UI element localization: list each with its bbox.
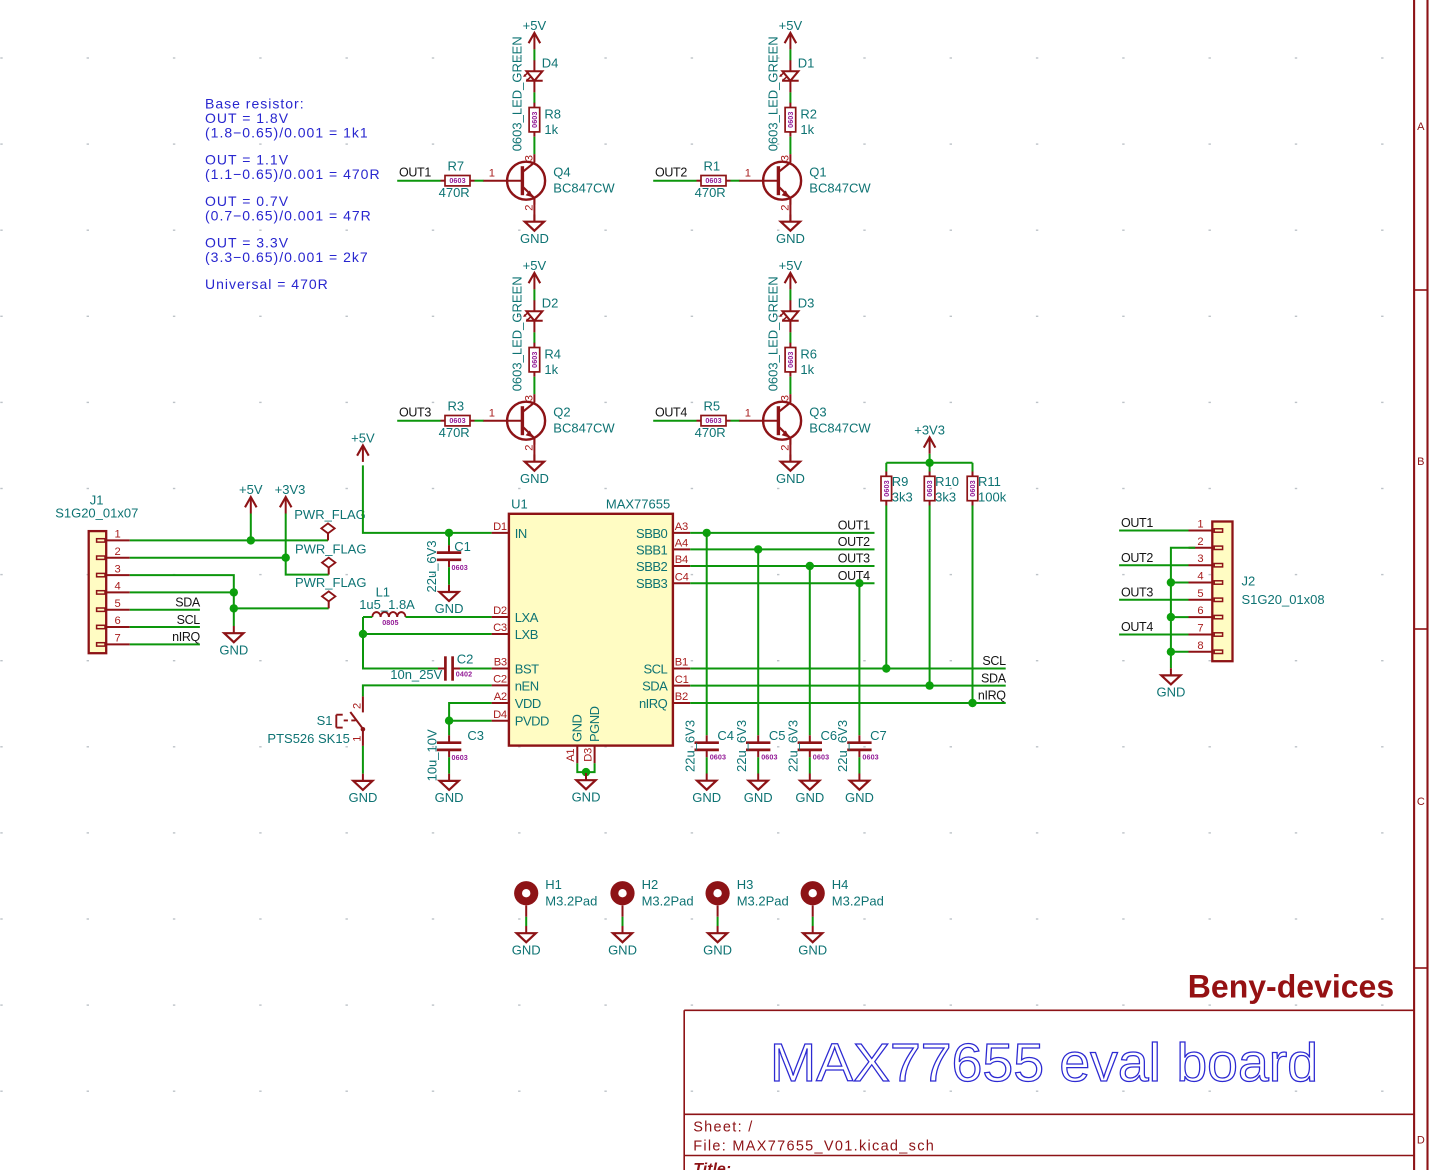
U1 pin B3 BST [492, 657, 540, 677]
svg-text:H4: H4 [832, 877, 849, 892]
junction R11 [968, 699, 976, 707]
U1 pin A2 VDD [492, 691, 541, 711]
wire +5V to LED D1 [789, 49, 791, 60]
power +5V (Q3 cell) [779, 258, 803, 289]
capacitor C2 10n_25V [438, 656, 460, 680]
svg-text:+5V: +5V [779, 18, 803, 33]
wire J1 pin4 [130, 591, 234, 593]
wire U1 GND pins to ground [577, 763, 594, 773]
power flag PWR_FLAG (on +3V3 net) [295, 541, 367, 574]
label OUT4 (U1) [838, 569, 870, 583]
wire R2 to collector [789, 137, 791, 155]
svg-text:R8: R8 [544, 106, 561, 121]
wire J1 pin1 to +5V / PWR_FLAG [130, 539, 328, 541]
wire R11 down [972, 506, 974, 704]
power +5V (Q1 cell) [779, 18, 803, 49]
junction U1 GND [582, 768, 590, 776]
wire R4 to collector [533, 377, 535, 395]
power flag PWR_FLAG (on +5V net) [294, 507, 366, 540]
svg-text:22u_6V3: 22u_6V3 [734, 720, 749, 772]
resistor R11 100k [967, 472, 1006, 506]
J2 pin 7 [1189, 623, 1213, 635]
svg-text:3: 3 [779, 395, 791, 401]
transistor Q3 BC847CW [739, 394, 872, 445]
svg-text:nIRQ: nIRQ [639, 696, 668, 711]
pin 3 (collector) [779, 155, 791, 161]
wire PVDD to C3 [448, 721, 450, 736]
svg-text:C3: C3 [493, 622, 507, 634]
svg-text:OUT1: OUT1 [1121, 516, 1153, 530]
mounting hole H2 M3.2Pad [610, 877, 693, 908]
resistor R7 470R [439, 158, 475, 200]
svg-text:0603_LED_GREEN: 0603_LED_GREEN [766, 276, 781, 391]
resistor R3 470R [439, 398, 475, 440]
J2 pin 8 [1189, 640, 1213, 652]
svg-text:SBB2: SBB2 [636, 559, 668, 574]
LED D4 0603_LED_GREEN [510, 36, 559, 151]
svg-text:470R: 470R [695, 185, 726, 200]
zone letter D [1417, 1135, 1425, 1147]
LED D1 0603_LED_GREEN [766, 36, 815, 151]
wire GND net to PWR_FLAG [234, 592, 329, 608]
svg-text:B3: B3 [494, 657, 507, 669]
label OUT1 (J2) [1121, 516, 1153, 530]
svg-text:C7: C7 [870, 728, 887, 743]
svg-text:M3.2Pad: M3.2Pad [642, 893, 694, 908]
title label [693, 1161, 731, 1170]
svg-text:1: 1 [1197, 519, 1203, 531]
pin 2 (emitter) [779, 445, 791, 451]
svg-text:SCL: SCL [982, 654, 1006, 668]
pin 2 (emitter) [523, 205, 535, 211]
wire PVDD [449, 720, 492, 722]
svg-text:1k: 1k [544, 362, 558, 377]
wire rail to R11 [972, 463, 974, 472]
svg-text:BC847CW: BC847CW [809, 180, 871, 195]
wire C6 to ground [809, 757, 811, 773]
svg-text:D3: D3 [798, 296, 815, 311]
file info [693, 1138, 935, 1154]
svg-text:Q2: Q2 [553, 405, 570, 420]
svg-text:B: B [1417, 456, 1424, 468]
label OUT3 [399, 406, 431, 420]
mounting hole H4 M3.2Pad [801, 877, 884, 908]
wire SBB3 (OUT4) [690, 582, 874, 584]
wire rail to R10 [929, 463, 931, 472]
inductor L1 1u5_1.8A [359, 585, 415, 627]
wire rail to R9 [885, 463, 887, 472]
svg-text:C3: C3 [467, 728, 484, 743]
svg-text:File: MAX77655_V01.kicad_sch: File: MAX77655_V01.kicad_sch [693, 1138, 935, 1154]
transistor Q4 BC847CW [483, 154, 616, 205]
svg-text:nEN: nEN [515, 678, 539, 693]
wire J1 pin7 (nIRQ) [130, 643, 200, 645]
svg-text:470R: 470R [439, 185, 470, 200]
J1 pin 6 [106, 615, 130, 627]
svg-text:Beny-devices: Beny-devices [1188, 969, 1394, 1005]
wire emitter to GND [789, 199, 791, 222]
wire R9 down [885, 506, 887, 669]
wire J2 ground bus [1171, 548, 1195, 668]
svg-text:MAX77655 eval board: MAX77655 eval board [770, 1033, 1318, 1093]
J2 pin 4 [1189, 571, 1213, 583]
wire LED to resistor R8 [533, 92, 535, 103]
ground (H2) [608, 926, 637, 957]
svg-text:OUT4: OUT4 [1121, 620, 1153, 634]
wire C3 to ground [448, 757, 450, 773]
junction R10 [925, 681, 933, 689]
svg-text:Sheet: /: Sheet: / [693, 1120, 753, 1136]
U1 pin A3 SBB0 [636, 521, 690, 541]
svg-text:SBB0: SBB0 [636, 526, 668, 541]
J1 pin 5 [106, 598, 130, 610]
wire pullup rail [886, 462, 972, 464]
U1 pin D3 PGND [582, 706, 602, 763]
LED D3 0603_LED_GREEN [766, 276, 815, 391]
svg-text:B4: B4 [675, 554, 688, 566]
wire emitter to GND [533, 199, 535, 222]
ground (J1) [219, 626, 248, 657]
wire OUT1 to R7 [397, 180, 440, 182]
wire J2 pin 6 stub [1171, 616, 1189, 618]
capacitor C5 22u_6V3 [734, 720, 786, 772]
svg-text:SBB1: SBB1 [636, 542, 668, 557]
label OUT1 (U1) [838, 519, 870, 533]
junction +3V3 rail [925, 459, 933, 467]
label OUT4 (J2) [1121, 620, 1153, 634]
note text: base resistor calculations [205, 96, 381, 293]
svg-text:R4: R4 [544, 346, 561, 361]
U1 pin C4 SBB3 [636, 571, 690, 591]
svg-text:+5V: +5V [779, 258, 803, 273]
junction LXB [359, 630, 367, 638]
svg-text:+3V3: +3V3 [275, 482, 306, 497]
svg-text:0603_LED_GREEN: 0603_LED_GREEN [766, 36, 781, 151]
wire J2 pin 5 (OUT3) [1119, 599, 1188, 601]
svg-text:MAX77655: MAX77655 [606, 497, 670, 512]
wire LED to resistor R6 [789, 332, 791, 343]
zone letter A [1417, 121, 1425, 133]
U1 pin C2 nEN [492, 674, 539, 694]
wire SBB2 to C6 [809, 566, 811, 735]
wire R3 to base [475, 420, 484, 422]
svg-text:D4: D4 [493, 709, 507, 721]
svg-text:OUT3: OUT3 [1121, 586, 1153, 600]
J1 pin 4 [106, 581, 130, 593]
svg-text:D2: D2 [493, 605, 507, 617]
J2 pin 3 [1189, 553, 1213, 565]
title MAX77655 eval board [770, 1033, 1318, 1093]
svg-text:6: 6 [1197, 605, 1203, 617]
junction pin3/pin4 [230, 588, 238, 596]
svg-text:1k: 1k [544, 122, 558, 137]
svg-text:R2: R2 [800, 106, 817, 121]
logo Beny-devices [1188, 969, 1394, 1005]
wire C5 to ground [757, 757, 759, 773]
svg-text:22u_6V3: 22u_6V3 [424, 540, 439, 592]
power flag PWR_FLAG (on GND net) [295, 575, 367, 608]
svg-text:470R: 470R [439, 425, 470, 440]
svg-text:3: 3 [523, 155, 535, 161]
U1 pin C3 LXB [492, 622, 538, 642]
U1 pin A1 GND [565, 715, 585, 764]
svg-text:0603: 0603 [452, 753, 468, 762]
svg-text:5: 5 [1197, 588, 1203, 600]
U1 pin D4 PVDD [492, 709, 549, 729]
svg-text:BC847CW: BC847CW [809, 420, 871, 435]
wire J1 pin5 (SDA) [130, 609, 200, 611]
svg-text:2: 2 [115, 546, 121, 558]
svg-text:R6: R6 [800, 346, 817, 361]
wire C2 to BST [460, 668, 492, 670]
label SDA (right) [981, 671, 1007, 685]
svg-text:B1: B1 [675, 657, 688, 669]
svg-text:B2: B2 [675, 691, 688, 703]
svg-text:Universal = 470R: Universal = 470R [205, 276, 329, 292]
svg-text:C1: C1 [454, 539, 471, 554]
J1 pin 7 [106, 633, 130, 645]
connector J2 S1G20_01x08 [1212, 522, 1324, 662]
wire SBB1 (OUT2) [690, 548, 874, 550]
pin 3 (collector) [523, 155, 535, 161]
label OUT3 (J2) [1121, 586, 1153, 600]
svg-text:M3.2Pad: M3.2Pad [737, 893, 789, 908]
svg-text:H3: H3 [737, 877, 754, 892]
svg-text:D1: D1 [798, 56, 815, 71]
label OUT3 (U1) [838, 552, 870, 566]
svg-text:C1: C1 [675, 674, 689, 686]
sheet info [693, 1120, 753, 1136]
wire R5 to base [731, 420, 740, 422]
wire to ground (J1) [233, 608, 235, 626]
wire LXB to BST via C2 [363, 634, 438, 669]
svg-text:S1G20_01x07: S1G20_01x07 [55, 505, 138, 520]
wire OUT4 to R5 [653, 420, 696, 422]
svg-text:0603: 0603 [452, 563, 468, 572]
svg-text:22u_6V3: 22u_6V3 [682, 720, 697, 772]
junction +3V3/pin2 [282, 554, 290, 562]
ground (Q4 emitter) [520, 215, 549, 246]
pin 1 (base) [745, 167, 751, 179]
transistor Q2 BC847CW [483, 394, 616, 445]
svg-text:C4: C4 [675, 571, 689, 583]
svg-text:SCL: SCL [644, 661, 668, 676]
svg-text:(1.1−0.65)/0.001 = 470R: (1.1−0.65)/0.001 = 470R [205, 166, 381, 182]
svg-text:PVDD: PVDD [515, 714, 549, 729]
svg-text:C5: C5 [769, 728, 786, 743]
junction J2 pin 4 [1167, 578, 1175, 586]
ground (C4) [692, 774, 721, 805]
wire R8 to collector [533, 137, 535, 155]
wire J1 pin2 net [130, 558, 329, 575]
wire J2 pin 8 stub [1171, 651, 1189, 653]
junction SBB0/C4 [703, 529, 711, 537]
wire SBB1 to C5 [757, 549, 759, 735]
svg-text:Q1: Q1 [809, 165, 826, 180]
switch S1 PTS526 SK15 [267, 696, 365, 746]
capacitor C1 22u_6V3 [424, 539, 471, 593]
J2 pin 5 [1189, 588, 1213, 600]
label OUT2 [655, 166, 687, 180]
wire +5V to LED D4 [533, 49, 535, 60]
svg-text:5: 5 [115, 598, 121, 610]
svg-text:+3V3: +3V3 [914, 422, 945, 437]
junction GND branch [230, 604, 238, 612]
svg-text:A1: A1 [565, 749, 577, 762]
U1 pin D1 IN [492, 521, 527, 541]
svg-text:S1G20_01x08: S1G20_01x08 [1242, 592, 1325, 607]
label SDA [175, 595, 201, 609]
capacitor C4 22u_6V3 [682, 720, 734, 772]
svg-text:A3: A3 [675, 521, 688, 533]
svg-text:OUT2: OUT2 [838, 535, 870, 549]
svg-text:SDA: SDA [175, 595, 201, 609]
junction SBB1/C5 [754, 545, 762, 553]
svg-text:10n_25V: 10n_25V [390, 667, 442, 682]
J2 pin 6 [1189, 605, 1213, 617]
svg-text:BST: BST [515, 661, 539, 676]
svg-text:M3.2Pad: M3.2Pad [832, 893, 884, 908]
wire R1 to base [731, 180, 740, 182]
wire R6 to collector [789, 377, 791, 395]
mounting hole H3 M3.2Pad [706, 877, 789, 908]
svg-text:+5V: +5V [523, 258, 547, 273]
capacitor C3 10u_10V [425, 728, 485, 781]
junction PVDD/C3 [445, 717, 453, 725]
svg-text:+5V: +5V [239, 482, 263, 497]
junction SBB2/C6 [806, 562, 814, 570]
svg-text:1: 1 [489, 167, 495, 179]
wire +5V to LED D3 [789, 289, 791, 300]
ground (Q3 emitter) [776, 455, 805, 486]
wire S1 to ground [362, 746, 364, 774]
wire J1 pin3 to pin4 (GND net) [130, 575, 234, 592]
svg-text:1: 1 [745, 167, 751, 179]
svg-text:1: 1 [489, 407, 495, 419]
capacitor C6 22u_6V3 [785, 720, 837, 772]
power +5V (J1) [239, 482, 263, 540]
ground (C1) [435, 585, 464, 616]
wire SBB3 to C7 [858, 583, 860, 735]
wire OUT3 to R3 [397, 420, 440, 422]
J1 pin 2 [106, 546, 130, 558]
wire H1 to ground [525, 905, 527, 926]
connector J1 S1G20_01x07 [55, 493, 138, 654]
power +3V3 (pullups) [914, 422, 945, 462]
svg-text:BC847CW: BC847CW [553, 420, 615, 435]
capacitor C7 22u_6V3 [835, 720, 887, 772]
junction J2 pin 8 [1167, 648, 1175, 656]
ground (C3) [435, 774, 464, 805]
wire J2 pin 4 stub [1171, 582, 1189, 584]
ground (H4) [798, 926, 827, 957]
ground (C5) [744, 774, 773, 805]
svg-text:H1: H1 [545, 877, 562, 892]
wire LXB row [363, 617, 492, 634]
svg-text:+5V: +5V [523, 18, 547, 33]
svg-text:M3.2Pad: M3.2Pad [545, 893, 597, 908]
pin 2 (emitter) [523, 445, 535, 451]
wire SBB0 to C4 [706, 533, 708, 735]
resistor R4 1k [529, 343, 561, 378]
wire H4 to ground [812, 905, 814, 926]
svg-text:4: 4 [1197, 571, 1203, 583]
wire C1 to ground [448, 567, 450, 585]
wire L1 to LXA [363, 616, 492, 618]
resistor R5 470R [695, 398, 731, 440]
svg-text:D4: D4 [542, 56, 559, 71]
U1 pin B2 nIRQ [639, 691, 690, 711]
svg-text:470R: 470R [695, 425, 726, 440]
zone letter C [1417, 796, 1425, 808]
svg-text:(0.7−0.65)/0.001 = 47R: (0.7−0.65)/0.001 = 47R [205, 207, 372, 223]
svg-text:J2: J2 [1242, 573, 1256, 588]
svg-text:OUT2: OUT2 [655, 166, 687, 180]
label OUT1 [399, 166, 431, 180]
pin 1 (base) [489, 407, 495, 419]
svg-text:C: C [1417, 796, 1425, 808]
svg-text:3k3: 3k3 [892, 490, 913, 505]
svg-text:7: 7 [1197, 623, 1203, 635]
svg-text:OUT4: OUT4 [655, 406, 687, 420]
svg-text:(3.3−0.65)/0.001 = 2k7: (3.3−0.65)/0.001 = 2k7 [205, 249, 369, 265]
svg-text:SDA: SDA [981, 671, 1007, 685]
resistor R9 3k3 [881, 472, 913, 506]
svg-text:3: 3 [115, 563, 121, 575]
svg-text:4: 4 [115, 581, 121, 593]
resistor R6 1k [785, 343, 817, 378]
resistor R1 470R [695, 158, 731, 200]
U1 pin A4 SBB1 [636, 538, 690, 558]
svg-text:0603_LED_GREEN: 0603_LED_GREEN [510, 276, 525, 391]
svg-text:2: 2 [351, 703, 363, 709]
svg-text:0402: 0402 [456, 670, 472, 679]
U1 pin D2 LXA [492, 605, 539, 625]
pin 3 (collector) [779, 395, 791, 401]
svg-text:3: 3 [779, 155, 791, 161]
svg-text:1u5_1.8A: 1u5_1.8A [359, 597, 415, 612]
wire +5V to U1 IN [363, 465, 492, 533]
svg-text:1k: 1k [800, 362, 814, 377]
svg-text:1: 1 [115, 529, 121, 541]
svg-text:0603: 0603 [862, 753, 878, 762]
svg-text:3: 3 [523, 395, 535, 401]
svg-text:8: 8 [1197, 640, 1203, 652]
wire C7 to ground [858, 757, 860, 773]
resistor R2 1k [785, 103, 817, 138]
junction R9 [882, 664, 890, 672]
ground (C6) [795, 774, 824, 805]
svg-text:D: D [1417, 1135, 1425, 1147]
svg-text:3k3: 3k3 [935, 490, 956, 505]
label SCL (right) [982, 654, 1006, 668]
label OUT2 (U1) [838, 535, 870, 549]
ground (S1) [348, 774, 377, 805]
svg-text:1: 1 [351, 736, 363, 742]
wire SBB0 (OUT1) [690, 532, 874, 534]
svg-text:OUT1: OUT1 [399, 166, 431, 180]
svg-text:(1.8−0.65)/0.001 = 1k1: (1.8−0.65)/0.001 = 1k1 [205, 125, 369, 141]
junction J1 pin1/+5V [247, 536, 255, 544]
svg-text:Title:: Title: [693, 1161, 731, 1170]
svg-text:GND: GND [570, 715, 585, 743]
svg-text:BC847CW: BC847CW [553, 180, 615, 195]
svg-text:0805: 0805 [382, 618, 398, 627]
wire LED to resistor R4 [533, 332, 535, 343]
svg-text:U1: U1 [511, 497, 528, 512]
svg-text:PTS526 SK15: PTS526 SK15 [267, 731, 349, 746]
svg-text:nIRQ: nIRQ [172, 630, 200, 644]
